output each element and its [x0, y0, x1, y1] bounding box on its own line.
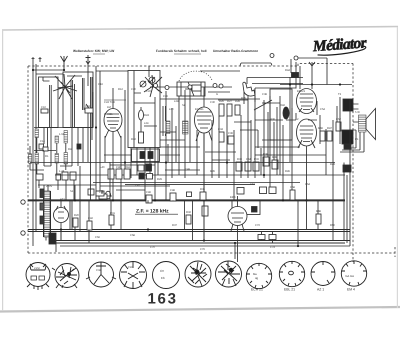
capacitor C52 [336, 122, 341, 131]
paper edge left [2, 30, 4, 311]
junction dot [95, 126, 97, 128]
junction dot [112, 199, 114, 201]
svg-text:C26: C26 [163, 95, 168, 98]
small box C16 [43, 147, 48, 151]
capacitor C10 [41, 109, 48, 113]
capacitor C57 [187, 192, 192, 197]
capacitor C12 [70, 172, 76, 180]
junction dot [311, 83, 313, 85]
resistor R38 [263, 157, 269, 166]
junction dot [154, 199, 156, 201]
resistor R21 [87, 221, 92, 230]
junction dot [147, 228, 149, 230]
socket 4 [120, 262, 147, 289]
svg-text:Z150: Z150 [34, 267, 40, 270]
bus 229 double [28, 230, 350, 232]
IF filter caps dark [140, 152, 145, 159]
svg-text:C22: C22 [146, 90, 151, 93]
svg-text:Funkbereik Schaltm: schnell, h: Funkbereik Schaltm: schnell, hell [156, 49, 207, 53]
nested right verticals [344, 99, 350, 246]
bus 246 [60, 245, 350, 247]
coil bar E [55, 154, 59, 164]
resistor row R43 [269, 187, 276, 194]
antenna [61, 56, 68, 70]
junction dot [203, 239, 205, 241]
svg-text:G: G [216, 93, 218, 96]
svg-text:AZ1: AZ1 [60, 198, 65, 201]
gram terminals [270, 54, 274, 58]
svg-text:C40: C40 [116, 166, 121, 169]
svg-text:L40: L40 [100, 166, 105, 169]
junction dot [124, 161, 126, 163]
junction dot [263, 174, 265, 176]
capacitor C48 [170, 193, 176, 201]
svg-text:C58: C58 [290, 186, 295, 189]
output stage box [270, 89, 292, 140]
junction dot [226, 161, 228, 163]
wire antenna down [33, 62, 36, 246]
svg-text:C42: C42 [88, 217, 93, 220]
svg-text:L28: L28 [174, 100, 179, 103]
svg-text:S2: S2 [182, 104, 186, 107]
svg-text:C54: C54 [320, 108, 325, 111]
IF filter box [132, 149, 160, 162]
magic eye mount box [232, 200, 260, 215]
svg-text:R34: R34 [200, 188, 205, 191]
svg-text:C47: C47 [135, 184, 140, 187]
svg-text:C64: C64 [305, 183, 310, 186]
svg-text:R39: R39 [272, 156, 277, 159]
svg-text:EM 4: EM 4 [347, 288, 355, 292]
brace 2 [174, 53, 201, 55]
bus 190 [38, 184, 96, 186]
long bus 175 [55, 174, 345, 176]
svg-text:R38: R38 [263, 153, 268, 156]
svg-text:EBL 21: EBL 21 [284, 288, 295, 292]
dashed border left [27, 66, 29, 253]
svg-text:R48: R48 [316, 210, 321, 213]
socket labels [251, 288, 355, 292]
svg-text:Eb: Eb [161, 276, 165, 280]
gram bracket [240, 63, 272, 66]
box C79 [96, 191, 104, 196]
svg-text:C10: C10 [41, 106, 46, 109]
ground arrow [86, 55, 91, 64]
lower region verticals [61, 200, 333, 259]
IF box outline [163, 106, 166, 136]
svg-text:R20: R20 [74, 214, 79, 217]
dashed border top [28, 65, 298, 67]
svg-text:C30: C30 [210, 101, 215, 104]
choke dark [342, 130, 353, 144]
svg-text:R4: R4 [68, 148, 72, 151]
wire earth down [87, 64, 89, 86]
junction dot [234, 242, 236, 244]
svg-text:mA mA: mA mA [345, 274, 354, 278]
svg-text:EBL21: EBL21 [297, 90, 306, 93]
svg-text:R44: R44 [285, 69, 290, 72]
svg-text:AZ 1: AZ 1 [317, 288, 324, 292]
svg-text:220V: 220V [46, 185, 52, 188]
svg-text:Z.F. = 128 kHz: Z.F. = 128 kHz [136, 209, 169, 215]
dial dotted arc [179, 71, 212, 81]
svg-text:C18: C18 [85, 105, 90, 108]
switch arm diagonal [254, 100, 272, 110]
svg-text:C48: C48 [170, 189, 175, 192]
svg-text:R1: R1 [45, 155, 49, 158]
choke oval dark [283, 107, 289, 119]
svg-text:C24 7/16: C24 7/16 [104, 101, 115, 104]
svg-text:T2: T2 [338, 93, 342, 96]
grid wire T1 [112, 88, 114, 109]
ZF text [135, 209, 178, 215]
trimmer C20 [140, 81, 146, 87]
svg-text:R37: R37 [172, 224, 177, 227]
box on bus 2 [269, 235, 276, 240]
anode line top [296, 62, 315, 89]
oscillator box [128, 71, 160, 148]
input terminals [32, 57, 42, 62]
rectifier tube AZ1 [54, 208, 69, 223]
socket 11 [341, 261, 366, 286]
svg-text:C62: C62 [250, 183, 255, 186]
junction dot [165, 161, 167, 163]
grid wire T2 [203, 87, 205, 107]
svg-text:R46: R46 [318, 127, 323, 130]
gram switch mech [243, 82, 255, 104]
coil oval near bus [105, 191, 110, 199]
socket 8 [246, 263, 271, 288]
main bus thick [28, 199, 345, 201]
svg-text:C66: C66 [95, 236, 100, 239]
junction dot [339, 83, 341, 85]
svg-text:C72: C72 [255, 224, 260, 227]
transformer T1 core [40, 185, 56, 252]
svg-text:R25: R25 [241, 97, 246, 100]
svg-text:C38: C38 [262, 93, 267, 96]
resistor R34 [200, 192, 206, 200]
svg-text:S1: S1 [70, 190, 74, 193]
svg-text:R31: R31 [110, 212, 115, 215]
resistor R32 [186, 215, 191, 224]
capacitor C84 dark [252, 207, 258, 213]
tube EBF top [297, 89, 317, 114]
Mediator logo [311, 34, 368, 56]
IF coil hatched [166, 121, 170, 134]
socket 7 [216, 261, 242, 287]
svg-text:R22: R22 [131, 138, 136, 141]
svg-text:R12: R12 [118, 88, 123, 91]
svg-text:R28: R28 [235, 100, 240, 103]
capacitor C34 [219, 132, 224, 142]
resistor R44 [292, 73, 299, 78]
resistor row R41 [260, 187, 267, 194]
svg-text:R49: R49 [330, 163, 335, 166]
junction dot [88, 228, 90, 230]
capacitor C51 dark [146, 164, 152, 171]
junction dot [282, 199, 284, 201]
svg-text:C49: C49 [185, 168, 190, 171]
socket 5 [153, 262, 180, 289]
dial box [177, 82, 205, 96]
resistor R8 [56, 174, 61, 180]
inner winding lines L1 [43, 77, 51, 127]
small box near dial [192, 85, 201, 91]
svg-text:C34: C34 [218, 128, 223, 131]
resistor R46 [320, 131, 325, 141]
resistor R39 [272, 160, 278, 169]
knot C60 dark [344, 143, 351, 149]
junction dot [32, 69, 34, 71]
svg-text:Wellenstufen: KW; MW; LW: Wellenstufen: KW; MW; LW [73, 49, 114, 53]
capacitor C40 [99, 194, 107, 199]
resistor R14 [108, 169, 114, 179]
resistor row R40 [237, 188, 244, 195]
wires left lower [39, 166, 80, 231]
coil bar G [64, 153, 68, 165]
capacitor C18 [85, 108, 93, 113]
svg-text:5 W: 5 W [355, 111, 360, 114]
tuning gang verticals mid-left [91, 66, 101, 200]
svg-text:C20: C20 [131, 88, 136, 91]
svg-text:C14: C14 [40, 140, 45, 143]
coil box L2 [63, 72, 93, 128]
coil L24 [139, 110, 144, 120]
output transformer dark [343, 99, 353, 111]
junction dot [63, 69, 65, 71]
svg-text:EM4: EM4 [230, 196, 236, 199]
socket 1 [26, 263, 50, 291]
svg-text:R24: R24 [144, 114, 149, 117]
resistor R33 [253, 162, 259, 171]
junction dot [297, 245, 299, 247]
long wire 182 [93, 182, 300, 184]
svg-text:C#: C# [160, 269, 164, 273]
paper edge bottom [0, 307, 400, 312]
svg-text:C44: C44 [246, 158, 251, 161]
resistor R16 [116, 169, 122, 179]
long bus AVC [30, 162, 335, 164]
mesh horizontals mid [96, 71, 326, 196]
resistor R28 [235, 105, 240, 115]
bus 240 [55, 241, 350, 244]
svg-text:R26: R26 [219, 100, 224, 103]
mesh verticals mid [105, 77, 317, 240]
dashed border right [352, 64, 354, 263]
terminal wire [150, 86, 232, 88]
paper edge right [396, 27, 398, 308]
tube socket row [26, 261, 367, 292]
svg-text:ECH21: ECH21 [195, 108, 204, 111]
svg-text:R47: R47 [327, 127, 332, 130]
small box C14 [39, 144, 44, 149]
capacitor C46 [146, 195, 152, 203]
resistor R30 [236, 162, 242, 171]
magic eye tube [228, 207, 247, 226]
svg-text:Umschalter Radio-Grammoon: Umschalter Radio-Grammoon [213, 49, 258, 53]
long wire 184 [125, 184, 255, 186]
socket 10 [311, 262, 335, 286]
resistor R31b [245, 162, 251, 171]
junction dot [289, 83, 291, 85]
left horizontals [30, 70, 72, 170]
junction dot [203, 199, 205, 201]
svg-text:C36: C36 [228, 132, 233, 135]
speaker wires [340, 104, 364, 152]
resistor R18 [124, 169, 130, 179]
svg-text:R27: R27 [227, 100, 232, 103]
svg-text:C76: C76 [200, 248, 205, 251]
svg-text:R36: R36 [270, 118, 275, 121]
capacitor C55 [147, 174, 153, 180]
resistor R31 [109, 215, 114, 225]
svg-text:ECH21: ECH21 [104, 113, 113, 116]
svg-text:1.48: 1.48 [59, 170, 65, 173]
dashed border top right [298, 64, 353, 67]
svg-text:163: 163 [148, 291, 178, 308]
svg-text:R18: R18 [125, 166, 130, 169]
resistor R9 [62, 172, 68, 180]
svg-text:R33: R33 [254, 158, 259, 161]
tube ECH21 I [104, 109, 122, 132]
svg-text:C74: C74 [270, 246, 275, 249]
svg-text:R30: R30 [237, 158, 242, 161]
switch starburst S1 [53, 74, 77, 99]
capacitor C58 [290, 190, 295, 200]
svg-text:C70: C70 [150, 246, 155, 249]
svg-text:R45: R45 [285, 170, 290, 173]
svg-text:R42: R42 [280, 104, 285, 107]
svg-text:C/38: C/38 [96, 269, 102, 272]
brace 1 [93, 53, 105, 55]
capacitor C53 dark [139, 173, 144, 179]
resistor R47 [327, 131, 332, 141]
underline boxes [34, 127, 93, 129]
terminal circle left B [21, 231, 25, 235]
box on bus 1 [258, 235, 265, 240]
svg-text:L24: L24 [144, 122, 149, 125]
wire pair [109, 162, 111, 200]
svg-text:4g: 4g [255, 276, 259, 280]
svg-text:Médiator: Médiator [311, 34, 368, 55]
gram wires [247, 58, 327, 85]
wires below transformer [61, 162, 318, 243]
paper edge top [2, 27, 398, 31]
socket 6 [185, 261, 211, 287]
resistor R20 [73, 218, 78, 227]
svg-text:L30: L30 [169, 108, 174, 111]
svg-text:1.68: 1.68 [59, 133, 65, 136]
inner winding lines L2 [67, 76, 90, 127]
wires osc box [134, 66, 157, 200]
right mid verticals [320, 97, 340, 231]
IF coil hatched 2 [183, 121, 189, 134]
coil bar A [35, 129, 39, 138]
junction dot [305, 199, 307, 201]
resistor cluster left [36, 174, 43, 180]
tube EBL bottom [297, 119, 317, 146]
coil bar ant [29, 154, 32, 164]
capacitor C50 [138, 165, 144, 171]
trimmer C22 [149, 77, 155, 83]
capacitor C36 [228, 136, 234, 144]
coil bar F [64, 131, 68, 144]
svg-text:C52: C52 [336, 118, 341, 121]
wires left verticals [30, 92, 93, 174]
HT line [280, 84, 352, 86]
svg-text:LS: LS [355, 138, 358, 141]
coil bar D [55, 136, 59, 143]
dashed border bottom-right stub [394, 247, 396, 257]
svg-text:R29: R29 [157, 178, 162, 181]
terminal circle left A [21, 200, 25, 204]
svg-text:R35: R35 [210, 170, 215, 173]
socket 2 [52, 264, 79, 289]
svg-text:C30: C30 [128, 266, 133, 269]
svg-text:R32: R32 [186, 211, 191, 214]
svg-text:C46: C46 [146, 191, 151, 194]
svg-text:C68: C68 [130, 234, 135, 237]
capacitor C103 [202, 206, 208, 216]
switch starburst S2 [144, 75, 162, 97]
coil bar B [35, 153, 39, 164]
svg-text:2: 2 [297, 118, 299, 121]
socket 9 [279, 261, 304, 286]
terminal circles [154, 84, 158, 88]
trimmer dark [77, 144, 81, 149]
label row above T1 [104, 99, 126, 101]
resistor R27 [227, 104, 232, 116]
svg-text:C40: C40 [99, 191, 104, 194]
svg-text:R50: R50 [330, 224, 335, 227]
box R41 [88, 189, 94, 195]
resistor column R26 [219, 104, 224, 116]
junction dot [60, 228, 62, 230]
coil box L1 [39, 77, 59, 128]
tiny labels [40, 69, 360, 251]
resistor R48 [316, 214, 321, 224]
dashed border bottom [28, 252, 395, 254]
speaker transformer [359, 115, 367, 132]
knot C64 dark [343, 165, 351, 172]
socket 3 [86, 262, 116, 287]
svg-text:ECH 21: ECH 21 [251, 288, 263, 292]
resistor R24 [139, 132, 144, 143]
svg-text:C16: C16 [98, 83, 103, 86]
speaker cone [366, 109, 376, 140]
tube ECH21 II [195, 107, 214, 133]
junction dot [74, 199, 76, 201]
